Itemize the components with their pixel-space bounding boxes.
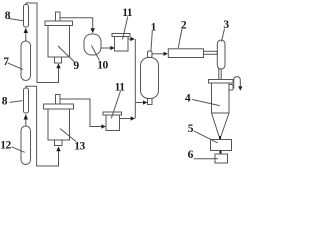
wire bottom-left loop <box>26 86 59 166</box>
arrow capsule1 to furnace2 <box>152 53 163 55</box>
svg-text:4: 4 <box>185 93 191 105</box>
cylinder 12 <box>21 126 31 165</box>
label 3 leader <box>222 29 225 42</box>
stub box5 to box6 <box>220 151 222 155</box>
svg-text:6: 6 <box>188 149 194 161</box>
capsule 1 bottom nozzle <box>148 99 153 105</box>
wire vessel13 to vessel11b <box>60 99 101 127</box>
label 4 leader <box>192 100 220 106</box>
label 11a leader <box>123 17 128 40</box>
vessel 9 flange <box>45 21 73 26</box>
stub cone to box5 <box>219 136 221 140</box>
arrow vessel11b outlet <box>120 118 131 120</box>
box 5 <box>211 140 232 151</box>
vessel 11a lid <box>112 34 130 37</box>
pump 10 <box>84 34 101 55</box>
label 12 leader <box>12 147 25 153</box>
cyclone nub <box>229 85 233 91</box>
label 9 leader <box>58 46 75 62</box>
wire top-left loop: flowmeter8a top to vessel9 bottom <box>26 3 59 83</box>
stem capsule3 to cyclone <box>219 69 221 80</box>
capsule 1 body <box>141 58 159 99</box>
arrow junction to capsule1 bottom <box>135 102 143 104</box>
label 8a leader <box>9 19 23 21</box>
vessel 13 neck <box>56 95 61 105</box>
label 11b leader <box>111 91 120 118</box>
svg-text:3: 3 <box>223 19 229 31</box>
arrow from cylinder 12 into flowmeter 8b <box>25 120 27 127</box>
rod furnace2 to capsule3 <box>204 51 218 54</box>
cyclone 4 body <box>212 83 230 113</box>
vessel 13 body <box>48 109 70 140</box>
capsule 1 top valve <box>148 51 153 58</box>
cyclone 4 cone <box>212 113 230 137</box>
vessel 11b lid <box>103 112 122 115</box>
vessel 11a body <box>115 37 129 52</box>
arrow pump10 to vessel11a <box>101 47 110 49</box>
svg-text:9: 9 <box>73 60 79 72</box>
furnace 2 <box>168 49 203 58</box>
label 5 leader <box>194 131 218 143</box>
svg-text:13: 13 <box>74 140 85 152</box>
svg-text:8: 8 <box>2 95 8 107</box>
svg-text:11: 11 <box>122 7 133 19</box>
svg-text:7: 7 <box>3 56 9 68</box>
svg-text:8: 8 <box>5 10 11 22</box>
capsule 3 <box>217 40 225 69</box>
arrow into vessel 13 bottom <box>56 146 60 151</box>
svg-text:10: 10 <box>97 59 108 71</box>
curved vent arrow <box>234 77 241 89</box>
box 6 <box>215 154 228 163</box>
label 7 leader <box>8 63 23 70</box>
wire vessel9 to pump10 <box>60 18 93 29</box>
svg-text:11: 11 <box>115 81 126 93</box>
label 13 leader <box>60 129 76 142</box>
label 6 leader <box>194 158 218 160</box>
vessel 9 outlet box <box>55 57 62 63</box>
svg-text:5: 5 <box>188 123 194 135</box>
vessel 13 flange <box>44 104 74 109</box>
wire junction vertical <box>134 39 136 119</box>
label 2 leader <box>178 29 182 48</box>
arrow vessel11a outlet <box>128 38 131 40</box>
cyclone 4 flange <box>209 80 234 84</box>
flowmeter 8a <box>24 5 29 28</box>
vessel 9 body <box>48 26 70 58</box>
cylinder 7 <box>21 41 31 81</box>
vessel 13 outlet box <box>55 140 63 146</box>
vessel 9 neck <box>56 12 61 21</box>
arrow into vessel 9 bottom <box>56 63 60 68</box>
svg-text:2: 2 <box>181 20 187 32</box>
arrow into pump 10 <box>91 28 95 33</box>
label 8b leader <box>10 101 23 103</box>
vessel 11b body <box>106 115 120 131</box>
arrow into vessel 11b <box>101 124 105 128</box>
label 1 leader <box>151 31 152 51</box>
flowmeter 8b <box>24 88 29 113</box>
arrow from cylinder 7 into flowmeter 8a <box>25 33 27 41</box>
svg-text:12: 12 <box>0 140 11 152</box>
svg-text:1: 1 <box>151 21 157 33</box>
label 10 leader <box>92 46 100 61</box>
